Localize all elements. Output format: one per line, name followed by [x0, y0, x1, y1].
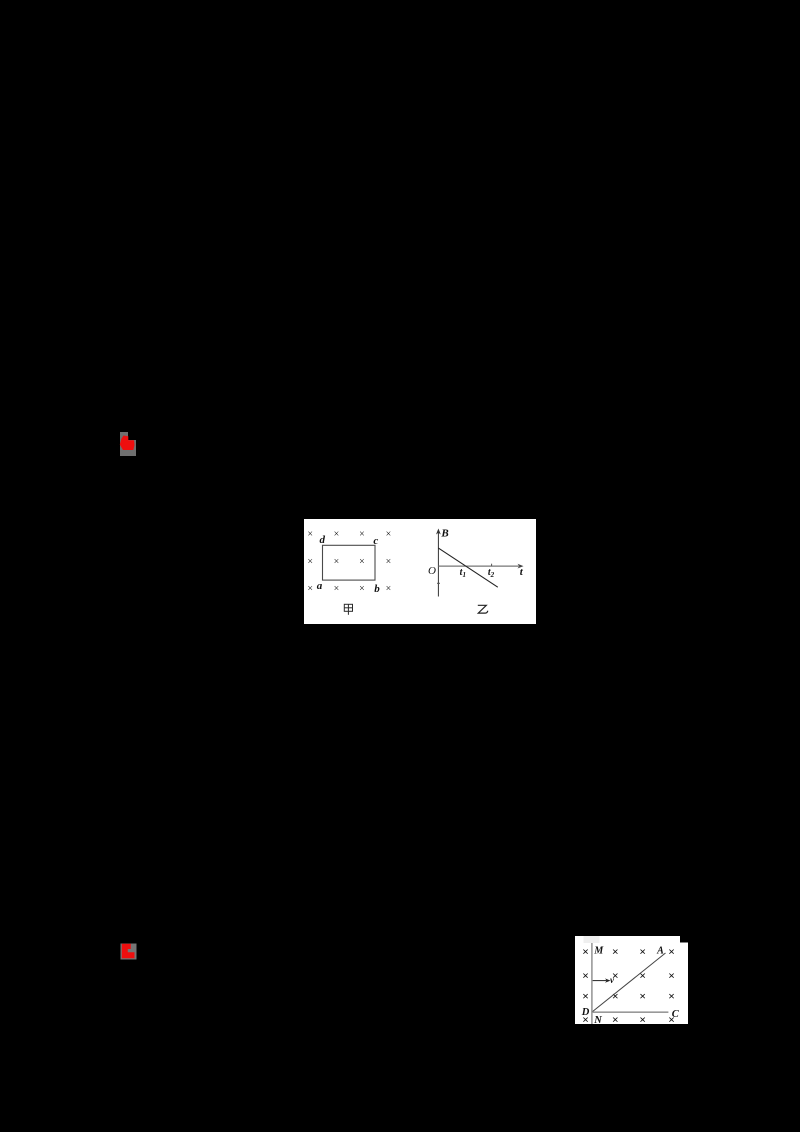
svg-text:×: × [334, 557, 340, 568]
velocity arrow v [593, 980, 607, 982]
svg-text:×: × [612, 1012, 619, 1024]
svg-text:O: O [428, 565, 436, 577]
svg-text:×: × [386, 557, 392, 568]
faint gray patch top-left [584, 936, 600, 943]
svg-text:×: × [582, 969, 589, 983]
svg-text:×: × [359, 557, 365, 568]
svg-text:A: A [656, 946, 664, 957]
svg-text:×: × [386, 529, 392, 540]
field crosses around loop [307, 529, 391, 594]
svg-text:B: B [440, 528, 448, 540]
loop abcd [323, 545, 376, 580]
svg-text:×: × [582, 944, 589, 958]
icon: red/gray source icon 1 [119, 431, 137, 457]
decreasing B line [438, 548, 497, 587]
svg-text:b: b [374, 583, 380, 595]
svg-text:×: × [307, 557, 313, 568]
svg-text:N: N [593, 1015, 602, 1024]
field crosses [582, 944, 675, 1026]
t axis (horizontal) [438, 565, 519, 567]
boundary MN (vertical) [591, 943, 593, 1024]
svg-text:×: × [386, 583, 392, 594]
svg-text:×: × [612, 944, 619, 958]
B axis (vertical) [437, 532, 439, 597]
icon: red/gray source icon 2 [120, 943, 137, 960]
svg-text:×: × [639, 969, 646, 983]
svg-text:×: × [639, 989, 646, 1003]
figure 2: MNDC region with field and diagonal DA [575, 936, 688, 1024]
figure 1: loop abcd in field (甲) + B-t graph (乙) [304, 519, 536, 624]
tick below O on B axis [437, 582, 440, 584]
svg-text:×: × [359, 583, 365, 594]
svg-text:×: × [307, 583, 313, 594]
svg-text:D: D [581, 1007, 590, 1018]
svg-text:×: × [334, 529, 340, 540]
svg-text:C: C [672, 1009, 680, 1020]
svg-text:×: × [359, 529, 365, 540]
black notch top-right [680, 936, 688, 943]
svg-text:×: × [334, 583, 340, 594]
svg-text:×: × [639, 944, 646, 958]
caption 乙 (drawn) [478, 605, 488, 613]
svg-text:×: × [668, 944, 675, 958]
svg-text:×: × [582, 989, 589, 1003]
svg-text:M: M [593, 946, 604, 957]
boundary DC (horizontal) [592, 1011, 669, 1013]
svg-text:×: × [668, 969, 675, 983]
svg-text:a: a [317, 580, 323, 592]
svg-text:×: × [307, 529, 313, 540]
trajectory D to A (diagonal) [593, 953, 666, 1012]
svg-text:×: × [639, 1012, 646, 1024]
svg-text:d: d [319, 534, 325, 546]
svg-text:c: c [373, 535, 378, 547]
svg-text:×: × [668, 989, 675, 1003]
caption 甲 (drawn) [344, 604, 352, 615]
tick t2 [491, 564, 493, 566]
